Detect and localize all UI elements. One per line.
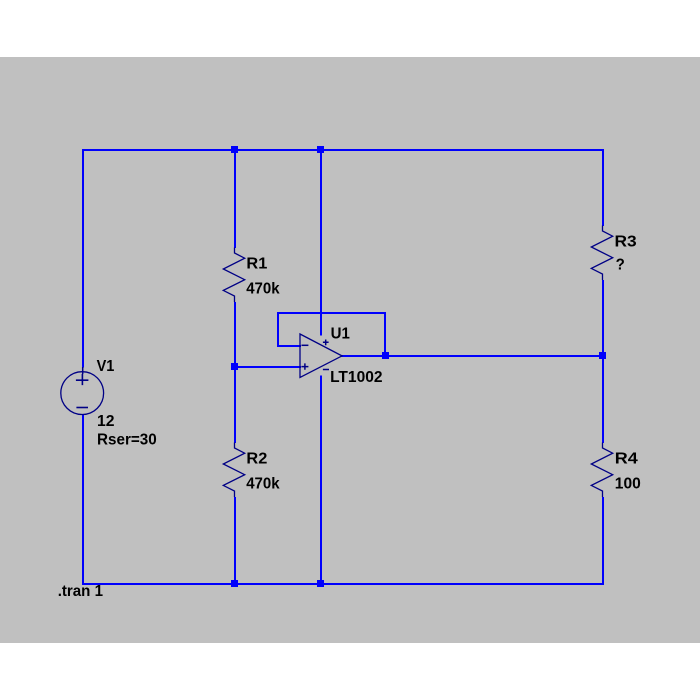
resistor R1 bbox=[223, 248, 244, 303]
wire middle rail R1 to R2 bbox=[234, 302, 236, 443]
junction top middle-right bbox=[317, 146, 324, 153]
junction bottom middle-right bbox=[317, 580, 324, 587]
op-amp V+ pin plus marker bbox=[323, 340, 329, 346]
wire left rail lower bbox=[82, 415, 84, 585]
resistor R4 bbox=[591, 443, 612, 498]
op-amp inverting input minus marker bbox=[302, 344, 309, 346]
svg-text:Rser=30: Rser=30 bbox=[97, 431, 157, 448]
voltage source V1 circle bbox=[61, 372, 104, 415]
junction output-right rail bbox=[599, 352, 606, 359]
junction bottom middle-left bbox=[231, 580, 238, 587]
wire feedback top bbox=[277, 312, 386, 314]
V1 plus sign bbox=[76, 374, 89, 385]
wire right rail above R3 bbox=[602, 149, 604, 226]
wire left rail upper bbox=[82, 149, 84, 367]
wire middle rail above R1 bbox=[234, 149, 236, 248]
wire right rail R3 to R4 bbox=[602, 280, 604, 443]
svg-text:?: ? bbox=[616, 257, 625, 274]
svg-text:R3: R3 bbox=[615, 233, 637, 250]
wire feedback right vertical bbox=[384, 312, 386, 357]
wire opamp V+ rail bbox=[320, 149, 322, 336]
junction output-feedback bbox=[382, 352, 389, 359]
junction top middle-left bbox=[231, 146, 238, 153]
svg-text:470k: 470k bbox=[246, 475, 279, 492]
V1 top pin stub bbox=[82, 367, 84, 374]
svg-text:R2: R2 bbox=[246, 450, 267, 467]
resistor R2 bbox=[223, 443, 244, 498]
wire bottom horizontal bbox=[82, 583, 604, 585]
svg-text:LT1002: LT1002 bbox=[330, 369, 382, 386]
op-amp noninverting input plus marker bbox=[301, 363, 308, 369]
op-amp V- pin minus marker bbox=[323, 369, 329, 371]
svg-text:R4: R4 bbox=[615, 450, 638, 467]
wire feedback left vertical bbox=[277, 312, 279, 347]
svg-text:100: 100 bbox=[615, 475, 641, 492]
wire inverting input bbox=[277, 345, 301, 347]
svg-text:12: 12 bbox=[97, 413, 115, 430]
wire right rail below R4 bbox=[602, 497, 604, 585]
svg-text:.tran 1: .tran 1 bbox=[58, 583, 103, 600]
svg-text:V1: V1 bbox=[97, 358, 115, 375]
svg-text:U1: U1 bbox=[331, 326, 350, 343]
V1 minus sign bbox=[76, 407, 88, 409]
wire opamp V- rail bbox=[320, 376, 322, 586]
op-amp U1 triangle bbox=[300, 334, 342, 377]
wire middle rail below R2 bbox=[234, 497, 236, 585]
svg-text:470k: 470k bbox=[246, 280, 279, 297]
wire opamp output bbox=[342, 355, 605, 357]
svg-text:R1: R1 bbox=[246, 255, 267, 272]
wire top horizontal bbox=[82, 149, 604, 151]
wire noninverting input bbox=[234, 366, 301, 368]
junction noninverting node bbox=[231, 363, 238, 370]
resistor R3 bbox=[591, 226, 612, 281]
